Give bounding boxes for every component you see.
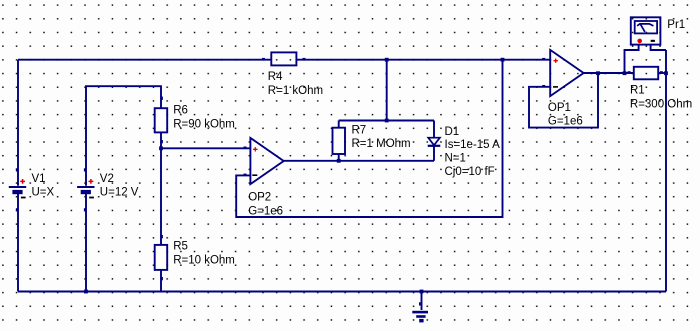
wire top net: R4 left segment — [18, 59, 271, 61]
node junction R6/R5/OP2+ — [159, 146, 163, 150]
op-amp OP2 — [244, 138, 284, 218]
diode D1 — [428, 126, 500, 178]
wire OP1 feedback loop (minus input to output) — [529, 73, 598, 127]
svg-text:Is=1e-15 A: Is=1e-15 A — [445, 139, 501, 151]
wire R5 bottom lead — [160, 270, 162, 292]
svg-text:R6: R6 — [173, 104, 188, 116]
wire V2 bottom lead — [85, 194, 87, 292]
svg-text:N=1: N=1 — [445, 153, 466, 165]
node junction R7/D1 horizontal — [385, 119, 389, 123]
wire R7 top stub — [338, 121, 340, 128]
wire voltmeter left leg — [625, 45, 639, 74]
svg-text:R5: R5 — [173, 241, 188, 253]
wire D1 top stub — [433, 121, 435, 138]
wire from top net down to R7/D1 top node — [386, 60, 388, 121]
wire R1 right lead — [658, 72, 666, 74]
node junction OP1 feedback output — [596, 71, 600, 75]
wire OP2 output net — [284, 160, 434, 162]
svg-text:R=1 kOhm: R=1 kOhm — [268, 85, 323, 97]
resistor R5 — [155, 235, 235, 280]
voltmeter probe Pr1 — [631, 17, 685, 44]
wire R7/D1 top node horizontal — [339, 120, 434, 122]
ground — [412, 302, 428, 322]
wire D1 bottom stub — [433, 146, 435, 161]
svg-text:Pr1: Pr1 — [667, 19, 685, 31]
svg-text:R1: R1 — [630, 85, 645, 97]
wire ground stub — [421, 292, 423, 311]
wire voltmeter right leg — [651, 45, 666, 50]
svg-text:Cj0=10 fF: Cj0=10 fF — [445, 166, 495, 178]
svg-text:U=X: U=X — [32, 186, 55, 198]
node junction V2 bottom — [84, 290, 88, 294]
svg-text:G=1e6: G=1e6 — [548, 116, 583, 128]
wire V2 top lead to R6 top — [86, 86, 161, 186]
svg-text:R=300 Ohm: R=300 Ohm — [630, 99, 692, 111]
svg-text:R7: R7 — [352, 124, 367, 136]
wire to OP2 + input — [161, 147, 250, 149]
wire R7 bottom stub — [338, 154, 340, 161]
node junction R1 right — [664, 71, 668, 75]
node junction R7 bottom on output net — [337, 159, 341, 163]
op-amp OP1 — [542, 50, 583, 128]
svg-text:R=1 MOhm: R=1 MOhm — [352, 138, 411, 150]
wire left branch lower (V1 bottom lead) — [17, 194, 19, 292]
svg-text:G=1e6: G=1e6 — [248, 206, 283, 218]
svg-text:V2: V2 — [100, 173, 114, 185]
resistor R6 — [155, 97, 235, 144]
wire right vertical (R1 right to bottom net) — [665, 50, 667, 292]
svg-text:D1: D1 — [445, 126, 460, 138]
resistor R4 — [262, 52, 323, 96]
wire top net: R4 right segment to OP1 + input — [296, 59, 550, 61]
svg-text:R=90 kOhm: R=90 kOhm — [173, 118, 235, 130]
wire OP2 feedback loop (minus input to top net) — [236, 60, 502, 217]
voltage source V2 — [77, 168, 139, 211]
svg-text:V1: V1 — [32, 173, 46, 185]
resistor R7 — [333, 124, 411, 154]
voltage source V1 — [9, 168, 55, 211]
node junction ground — [420, 290, 424, 294]
resistor R1 — [628, 67, 693, 111]
node junction top R7/D1 — [385, 58, 389, 62]
wire left branch upper (V1 top lead) — [17, 60, 19, 186]
node junction top feedback — [501, 58, 505, 62]
svg-text:R=10 kOhm: R=10 kOhm — [173, 254, 235, 266]
wire R6 bottom through junction to R5 top — [160, 132, 162, 245]
svg-text:OP1: OP1 — [548, 102, 571, 114]
svg-text:OP2: OP2 — [248, 192, 271, 204]
wire bottom net — [18, 291, 666, 293]
node junction voltmeter left — [623, 71, 627, 75]
svg-text:U=12 V: U=12 V — [100, 186, 139, 198]
svg-text:R4: R4 — [268, 71, 283, 83]
wire OP1 output to R1 left — [584, 72, 634, 74]
